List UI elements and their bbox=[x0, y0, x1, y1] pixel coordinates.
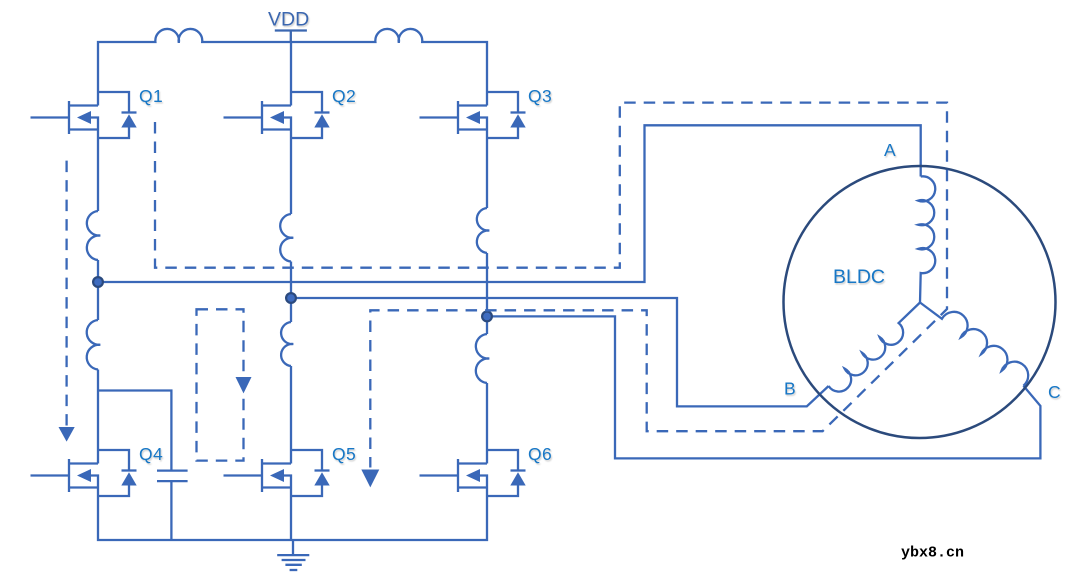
dashed freewheeling loop rectangle bbox=[197, 309, 244, 460]
capacitor C1 bbox=[157, 471, 188, 482]
node C junction bbox=[482, 312, 492, 322]
wire Q1 source to inductor bbox=[97, 130, 99, 212]
svg-text:B: B bbox=[784, 379, 796, 399]
wire bottom ground rail bbox=[98, 488, 487, 541]
VDD power symbol bbox=[275, 31, 307, 43]
node A junction bbox=[93, 277, 103, 287]
wire phase A to motor terminal A bbox=[98, 125, 921, 282]
wire leg A to capacitor C1 bbox=[98, 391, 171, 470]
transistor Q5 bbox=[224, 450, 330, 496]
motor winding C bbox=[920, 303, 1028, 386]
inductor leg A upper bbox=[87, 211, 100, 260]
ground bbox=[277, 540, 309, 570]
motor winding B bbox=[829, 303, 920, 392]
inductor leg C upper bbox=[477, 208, 489, 253]
svg-text:VDD: VDD bbox=[268, 9, 309, 31]
wire lower inductor to Q6 drain bbox=[486, 383, 488, 464]
inductor leg A lower bbox=[87, 320, 101, 370]
node B junction bbox=[286, 293, 296, 303]
svg-text:C: C bbox=[1048, 382, 1061, 402]
transistor Q4 bbox=[31, 450, 137, 496]
dashed current loop path through motor windings bbox=[155, 103, 947, 468]
motor winding A bbox=[918, 176, 935, 302]
dashed current path through Q1 (arrow down) bbox=[65, 161, 67, 426]
transistor Q6 bbox=[420, 450, 526, 496]
wire phase B to motor terminal B bbox=[291, 298, 829, 406]
wire lower inductor to Q5 drain bbox=[290, 366, 292, 464]
wire capacitor C1 to ground rail bbox=[170, 481, 172, 540]
svg-text:A: A bbox=[884, 140, 896, 160]
wire inductor to node A bbox=[97, 260, 99, 282]
inductor leg B lower bbox=[281, 322, 293, 366]
wire node B to lower inductor bbox=[290, 298, 292, 322]
wire Q2 drain to VDD rail bbox=[290, 42, 292, 106]
transistor Q3 bbox=[420, 92, 526, 138]
wire node A to lower inductor bbox=[97, 282, 99, 320]
svg-text:Q3: Q3 bbox=[528, 86, 552, 106]
motor BLDC circle bbox=[784, 166, 1056, 438]
wire lower inductor to Q4 drain bbox=[97, 370, 99, 464]
VDD rail wire with top corners bbox=[98, 29, 487, 106]
svg-text:ybx8.cn: ybx8.cn bbox=[901, 545, 964, 562]
wire phase C to motor terminal C bbox=[487, 316, 1040, 458]
svg-text:Q6: Q6 bbox=[528, 444, 552, 464]
svg-text:Q4: Q4 bbox=[139, 444, 163, 464]
wire node C to lower inductor bbox=[486, 316, 488, 334]
transistor Q2 bbox=[224, 92, 330, 138]
svg-text:Q2: Q2 bbox=[332, 86, 356, 106]
wire inductor to node B bbox=[290, 262, 292, 299]
svg-text:Q5: Q5 bbox=[332, 444, 356, 464]
svg-text:BLDC: BLDC bbox=[833, 266, 885, 288]
wire Q3 source to inductor bbox=[486, 130, 488, 209]
wire inductor to node C bbox=[486, 253, 488, 316]
inductor leg B upper bbox=[280, 214, 293, 262]
wire Q2 source to inductor bbox=[290, 130, 292, 215]
svg-text:Q1: Q1 bbox=[139, 86, 163, 106]
transistor Q1 bbox=[31, 92, 137, 138]
inductor leg C lower bbox=[476, 334, 489, 383]
